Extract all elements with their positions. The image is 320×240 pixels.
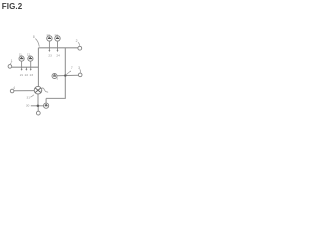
wire: bottom horizontal y=105.8 — [31, 105, 44, 107]
wire: G4 stem to right bus with ref arrow — [57, 41, 59, 51]
source G3 (circle) — [47, 36, 52, 41]
terminal T2 (output 2) — [78, 46, 82, 50]
terminal T5 (bottom) — [36, 111, 40, 115]
source G1 (circle) — [19, 56, 24, 61]
terminal T3 (output 3) — [78, 73, 82, 77]
junction dot on right vertical — [64, 74, 66, 76]
wire: left bus horizontal y=67.2 — [12, 66, 39, 68]
svg-text:30: 30 — [26, 103, 30, 107]
svg-text:FIG.2: FIG.2 — [2, 2, 23, 11]
wire: G3 stem to right bus with ref arrow — [48, 41, 50, 51]
ref lead squiggle right of mixer — [41, 88, 48, 92]
svg-text:5: 5 — [57, 76, 59, 80]
wire: left input wire y=90.7 to mixer — [14, 90, 34, 92]
svg-text:13: 13 — [46, 33, 50, 37]
wire: mixer output down to bottom wire — [37, 94, 39, 106]
terminal T4 (input 4) — [10, 89, 14, 93]
wire: center vertical from right bus down to mixer — [37, 48, 39, 87]
svg-text:3: 3 — [78, 66, 80, 70]
svg-text:14: 14 — [54, 33, 58, 37]
svg-text:11: 11 — [19, 53, 22, 57]
svg-text:23: 23 — [48, 53, 52, 57]
wire: G1 stem to left bus with ref arrow — [21, 61, 23, 69]
svg-text:24: 24 — [56, 54, 60, 58]
svg-text:22: 22 — [25, 73, 29, 77]
wire: stem down from junction to terminal T5 — [37, 106, 39, 112]
svg-text:4: 4 — [13, 86, 15, 90]
svg-text:21: 21 — [20, 73, 24, 77]
svg-text:23: 23 — [30, 73, 34, 77]
source B1 (circle with bar) — [52, 74, 57, 79]
svg-text:8: 8 — [33, 35, 35, 39]
source G2 (circle) — [28, 56, 33, 61]
wire: right bus horizontal y=47.8 — [38, 47, 78, 49]
svg-text:7: 7 — [71, 66, 73, 70]
svg-text:12: 12 — [27, 53, 31, 57]
ref lead arrow middle below left bus — [25, 67, 27, 70]
wire: G2 stem to left bus with ref arrow — [30, 61, 32, 69]
wire: stem down from feedback wire into source B2 — [45, 98, 47, 103]
svg-text:2: 2 — [76, 39, 78, 43]
junction dot bottom — [37, 105, 40, 108]
source B2 (circle with bar) — [44, 103, 49, 108]
wire: long right vertical x=65.3 — [46, 48, 65, 99]
terminal T1 (input 1) — [8, 65, 12, 69]
wire: mid-right horizontal from B1 to terminal T3 — [57, 74, 79, 77]
svg-text:31: 31 — [27, 95, 31, 99]
source G4 (circle) — [55, 36, 60, 41]
mixer U1 (circle with X) — [34, 86, 42, 94]
